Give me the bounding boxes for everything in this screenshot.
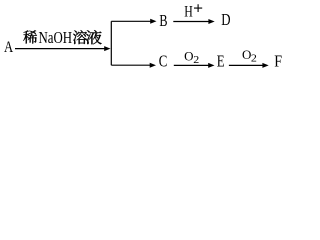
label H+ — [184, 3, 202, 21]
label O2 first — [184, 49, 199, 66]
branch arrow to B — [111, 19, 156, 24]
label 溶 — [73, 30, 87, 44]
svg-text:B: B — [159, 12, 167, 30]
svg-text:E: E — [217, 53, 225, 71]
branch vertical wire — [110, 21, 112, 65]
arrow C to E — [174, 63, 215, 68]
label O2 second — [242, 47, 257, 64]
svg-text:C: C — [159, 53, 168, 71]
arrow E to F — [229, 63, 269, 68]
svg-text:F: F — [274, 53, 282, 71]
svg-text:D: D — [221, 12, 231, 30]
svg-text:A: A — [4, 39, 14, 56]
branch arrow to C — [111, 63, 156, 68]
svg-text:2: 2 — [193, 55, 199, 66]
arrow B to D — [173, 19, 214, 24]
svg-text:NaOH: NaOH — [39, 30, 73, 48]
svg-text:O: O — [184, 49, 193, 64]
svg-text:2: 2 — [251, 53, 257, 64]
label 稀 — [23, 30, 37, 43]
label 液 — [86, 30, 102, 44]
arrow A to branch — [15, 46, 111, 51]
svg-text:H: H — [184, 3, 193, 21]
